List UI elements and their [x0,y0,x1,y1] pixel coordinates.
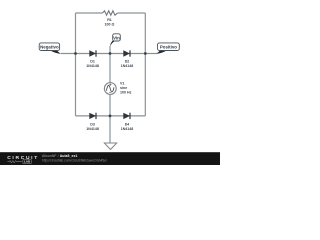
resistor R1 [103,11,118,15]
flag label Positivo [156,43,180,54]
svg-text:1N4148: 1N4148 [121,64,134,68]
svg-text:1N4148: 1N4148 [86,64,99,68]
voltage source V1 [104,83,116,95]
svg-text:R1: R1 [107,18,112,22]
node: junction right rail / mid wire [144,52,147,55]
diode D3 [89,113,96,119]
svg-text:V1: V1 [120,82,124,86]
flag label Vin [110,34,120,47]
diode D4 [123,113,130,119]
wire: ground stem [109,116,111,143]
wire: middle horizontal net (Negativo to Positivo) [61,53,157,55]
wire: top-left lead of R1 [76,12,103,14]
footer bar [0,152,220,165]
wire: bottom horizontal [76,115,146,117]
svg-text:Negativo: Negativo [40,44,59,49]
wire: mid rail upper (node Vin to V1 top) [109,54,111,83]
svg-text:1N4148: 1N4148 [86,127,99,131]
svg-text:LAB: LAB [24,160,31,164]
ground [104,143,116,150]
svg-text:100 Ω: 100 Ω [105,22,115,26]
svg-text:Positivo: Positivo [160,45,177,50]
node: junction mid rail / bottom wire [109,115,112,118]
CircuitLab logo [7,155,39,163]
wire: top-right lead of R1 [118,12,146,14]
svg-text:sine: sine [120,86,127,90]
node: junction left rail / mid wire [74,52,77,55]
svg-text:D2: D2 [125,60,130,64]
wire: left rail [75,13,77,116]
svg-text:Vin: Vin [113,35,120,40]
diode D2 [123,50,130,56]
wire: Vin stub [109,46,111,54]
diode D1 [89,50,96,56]
node Vin: junction mid rail / mid wire [109,52,112,55]
wire: mid rail lower (V1 bottom to bottom wire) [109,94,111,116]
svg-text:D4: D4 [125,123,130,127]
svg-text:D3: D3 [90,123,95,127]
flag label Negativo [39,43,61,54]
svg-text:100 Hz: 100 Hz [120,91,132,95]
svg-text:http://circuitlab.com/circuit/: http://circuitlab.com/circuit/9kb2awo2mb… [42,158,107,162]
svg-text:D1: D1 [90,60,95,64]
wire: right rail [144,13,146,116]
svg-text:1N4148: 1N4148 [121,127,134,131]
